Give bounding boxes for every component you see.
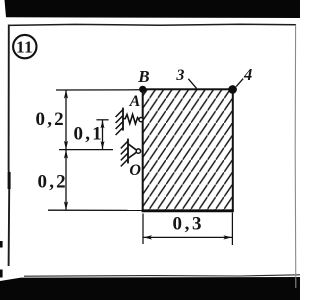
svg-text:O: O bbox=[129, 162, 141, 179]
arrow up of 0,1 bbox=[101, 120, 105, 128]
plate bottom edge (thick) bbox=[142, 209, 234, 212]
leader line to label 3 bbox=[188, 79, 196, 89]
bottom page-edge black band bbox=[0, 277, 300, 300]
spring wall line bbox=[122, 108, 124, 131]
left frame rule thick blob bbox=[8, 172, 11, 189]
bottom dim extension right bbox=[231, 213, 233, 246]
hinge triangle links bbox=[128, 144, 137, 159]
node 4 (corner dot) bbox=[228, 85, 237, 94]
top frame rule bbox=[8, 24, 296, 25]
svg-text:0,2: 0,2 bbox=[36, 109, 66, 130]
svg-text:11: 11 bbox=[16, 37, 33, 56]
right frame rule (faint) bbox=[294, 25, 297, 288]
node B (pin dot) bbox=[139, 86, 146, 93]
page-edge mark left lower bbox=[0, 270, 3, 278]
hinge wall line at O bbox=[127, 139, 129, 164]
leader line to label 4 bbox=[236, 79, 243, 87]
hinge pin circle at O bbox=[136, 149, 140, 153]
svg-text:0,2: 0,2 bbox=[38, 172, 68, 193]
arrow left of 0,3 bbox=[143, 235, 152, 239]
arrow down at middle (upper span) bbox=[64, 141, 68, 150]
arrow right of 0,3 bbox=[223, 235, 232, 239]
top page-edge black band bbox=[5, 0, 301, 18]
dimension line 0,3 (horizontal) bbox=[143, 236, 232, 238]
bottom dim extension left bbox=[142, 214, 144, 245]
svg-text:0,3: 0,3 bbox=[173, 214, 205, 235]
page-edge mark left upper bbox=[0, 241, 3, 248]
extension line bottom bbox=[48, 209, 142, 211]
spring zigzag bbox=[123, 114, 139, 123]
svg-text:4: 4 bbox=[243, 65, 252, 84]
svg-text:A: A bbox=[129, 93, 141, 110]
arrow up at top of 0,2 bbox=[64, 90, 68, 99]
0,1 dimension line bbox=[102, 120, 104, 149]
figure number circle 11 bbox=[13, 35, 36, 58]
spring pin circle at A bbox=[139, 118, 143, 122]
extension line top (level B) bbox=[56, 89, 140, 91]
0,1 dimension top tick bbox=[96, 119, 108, 121]
svg-text:B: B bbox=[137, 67, 149, 86]
arrow up at middle (lower span) bbox=[64, 150, 68, 159]
bottom band thin ragged top line bbox=[24, 275, 300, 276]
hinge wall hatches bbox=[121, 141, 128, 166]
arrow down at bottom of 0,2 bbox=[64, 201, 68, 210]
extension line middle (level O) bbox=[59, 149, 113, 151]
svg-text:3: 3 bbox=[175, 67, 184, 84]
spring wall hatches bbox=[116, 110, 123, 136]
left frame rule bbox=[8, 25, 11, 267]
arrow down of 0,1 bbox=[101, 141, 105, 149]
dimension line 0,2 spans (vertical) bbox=[65, 90, 67, 210]
plate (hatched rectangle) bbox=[142, 89, 234, 211]
svg-text:0,1: 0,1 bbox=[74, 123, 104, 144]
